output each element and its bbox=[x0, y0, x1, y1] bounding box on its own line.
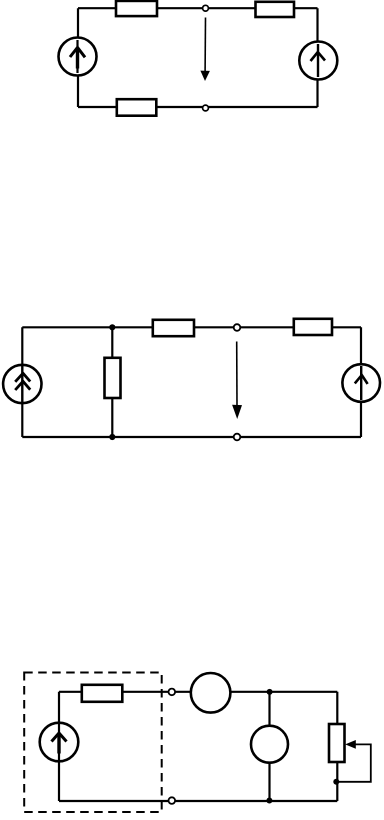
wire: right vertical branch bbox=[316, 8, 318, 107]
resistor R2 (top right) bbox=[256, 2, 295, 17]
junction dot (top of shunt) bbox=[109, 324, 115, 330]
resistor R4 (shunt, vertical) bbox=[105, 358, 121, 398]
junction dot (bottom of shunt) bbox=[109, 434, 115, 440]
arrow: voltage/current indicator between terminals bbox=[200, 18, 210, 82]
wire: middle shunt branch bbox=[111, 327, 113, 437]
node terminal d (open, bottom) bbox=[234, 434, 241, 441]
node terminal b (open, bottom middle) bbox=[203, 105, 209, 111]
source U2 (middle branch circle) bbox=[251, 726, 288, 763]
wire: middle vertical branch bbox=[268, 692, 270, 801]
node terminal c (open, top) bbox=[234, 324, 241, 331]
resistor R8 (variable, right branch) bbox=[329, 724, 345, 762]
current source I1 (left) bbox=[59, 38, 97, 76]
wire: right vertical branch bbox=[336, 692, 338, 801]
wire: left vertical branch bbox=[77, 8, 79, 107]
node terminal f (open, bottom) bbox=[169, 797, 176, 804]
junction dot (bottom of middle branch) bbox=[266, 798, 272, 804]
wire: top horizontal (node a to node b) bbox=[78, 7, 318, 9]
wire: bottom horizontal bbox=[78, 106, 318, 108]
source U1 (series circle, top) bbox=[191, 673, 231, 713]
wire: top horizontal bbox=[59, 691, 337, 693]
current source I2 (right) bbox=[299, 42, 337, 80]
node terminal a (open, top middle) bbox=[203, 5, 209, 11]
junction dot (top of middle branch) bbox=[267, 689, 273, 695]
wire: top horizontal bbox=[22, 326, 361, 328]
resistor R7 (inside dashed box) bbox=[82, 685, 123, 702]
resistor R5 (top middle) bbox=[153, 320, 194, 336]
current source I4 (right) bbox=[342, 364, 380, 402]
wire: right vertical branch bbox=[360, 327, 362, 437]
current source I3 (left, double arrow) bbox=[3, 365, 41, 403]
current source I5 (inside dashed box) bbox=[40, 723, 79, 762]
wire: bottom horizontal bbox=[22, 436, 361, 438]
dashed box (two-terminal network outline) bbox=[24, 673, 162, 813]
resistor R3 (bottom) bbox=[117, 99, 157, 116]
arrow: indicator between terminals bbox=[232, 342, 242, 420]
node terminal e (open, top) bbox=[169, 689, 176, 696]
junction dot (wiper tap on right branch) bbox=[333, 779, 339, 785]
wire: left vertical branch bbox=[58, 692, 60, 801]
wire: left vertical branch bbox=[21, 327, 23, 437]
resistor R1 (top left) bbox=[116, 1, 157, 16]
wiper arrow into R8 bbox=[345, 740, 356, 749]
resistor R6 (top right) bbox=[294, 319, 332, 335]
wire: bottom horizontal bbox=[59, 800, 337, 802]
wire: wiper feedback loop bbox=[336, 744, 371, 781]
